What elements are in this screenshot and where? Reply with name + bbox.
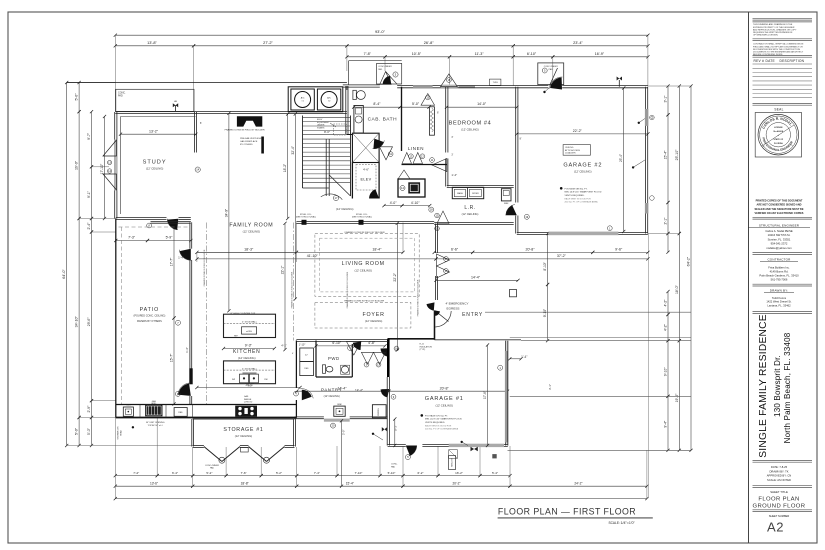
svg-text:CONTRACTOR: CONTRACTOR — [767, 257, 791, 261]
svg-text:ENTRY: ENTRY — [462, 312, 483, 318]
svg-text:SCALE:: SCALE: — [609, 521, 620, 525]
elevator shaft — [351, 163, 353, 199]
svg-text:DESCRIPTION: DESCRIPTION — [780, 59, 805, 63]
outdoor kitchen band — [116, 404, 297, 406]
svg-text:5'-3": 5'-3" — [394, 425, 398, 431]
LR left bay window triangles — [437, 211, 449, 224]
pantry left wall — [295, 341, 297, 389]
left dim extensions — [67, 82, 116, 84]
cab bath entry porch outline — [349, 60, 402, 62]
family room wall stub — [261, 137, 264, 154]
svg-text:FRAMED DOWN IN FIELD BY BUILDE: FRAMED DOWN IN FIELD BY BUILDER — [225, 129, 265, 132]
svg-text:561-795-7006: 561-795-7006 — [771, 278, 788, 282]
svg-text:9'-10": 9'-10" — [543, 308, 547, 317]
emergency egress door — [427, 302, 435, 310]
svg-text:1422 West Drexel St.: 1422 West Drexel St. — [766, 300, 792, 304]
svg-text:14'-0": 14'-0" — [477, 102, 487, 106]
svg-text:CAB. BATH: CAB. BATH — [368, 117, 398, 123]
svg-text:PANTRY: PANTRY — [321, 388, 342, 393]
svg-text:93'-0": 93'-0" — [375, 29, 386, 34]
svg-text:18'-2": 18'-2" — [283, 163, 287, 172]
svg-text:6'-4": 6'-4" — [172, 471, 178, 475]
svg-text:ELEV: ELEV — [361, 178, 372, 182]
svg-text:32'-4": 32'-4" — [291, 145, 295, 154]
svg-text:9'-10": 9'-10" — [664, 367, 668, 377]
svg-text:4'-1": 4'-1" — [281, 344, 286, 348]
svg-text:25'-4": 25'-4" — [619, 154, 623, 162]
right dim chain 1 — [667, 86, 669, 115]
washer dryer boxes — [452, 187, 483, 198]
svg-text:10'-5": 10'-5" — [412, 52, 422, 56]
svg-text:Todd Koons: Todd Koons — [772, 296, 787, 300]
svg-text:8'-10": 8'-10" — [543, 261, 547, 270]
svg-text:PAVERS BY OTHERS: PAVERS BY OTHERS — [137, 320, 162, 323]
svg-text:4'-2": 4'-2" — [664, 299, 668, 307]
pwd top wall — [296, 339, 387, 341]
svg-text:7'-2": 7'-2" — [133, 471, 139, 475]
svg-text:1/4"=1'0": 1/4"=1'0" — [621, 521, 636, 525]
svg-text:REFRIG: REFRIG — [378, 408, 380, 416]
cab bath vanity — [354, 106, 363, 134]
stair winder diagonal — [329, 175, 350, 196]
LR sink cabinet — [501, 189, 511, 201]
cab bath entry door — [380, 72, 391, 85]
svg-text:ELEV: ELEV — [317, 119, 323, 121]
svg-text:FLORIDA: FLORIDA — [774, 142, 783, 145]
study interior wall ticks — [121, 116, 196, 118]
svg-text:4'-10": 4'-10" — [411, 201, 420, 205]
bedroom4 left wall — [445, 87, 447, 153]
svg-text:INSULATION: INSULATION — [420, 345, 433, 348]
svg-text:REF.: REF. — [304, 368, 309, 370]
svg-text:OF WINDSWELL DESIGN.: OF WINDSWELL DESIGN. — [753, 35, 779, 37]
title block frame — [748, 12, 750, 543]
svg-text:SHEET NUMBER: SHEET NUMBER — [769, 514, 790, 518]
svg-text:SCALE: AS NOTED: SCALE: AS NOTED — [767, 478, 791, 482]
svg-text:VENTS REQUIRED.: VENTS REQUIRED. — [565, 195, 585, 197]
hose bib HB top right — [618, 80, 620, 87]
right dim chain 2 — [678, 86, 680, 234]
pantry dim 14'-4" — [297, 390, 388, 392]
left closet shelving — [300, 348, 314, 362]
svg-text:Frisa Builders Inc.: Frisa Builders Inc. — [768, 266, 790, 270]
svg-text:5'-0": 5'-0" — [75, 427, 79, 435]
conc paver pad box — [377, 63, 402, 84]
svg-text:BY OTHERS: BY OTHERS — [240, 144, 253, 146]
svg-text:9'-4": 9'-4" — [664, 420, 668, 428]
patio door wedge — [180, 249, 191, 261]
top wall right of entry — [562, 85, 648, 87]
svg-text:PRINTED COPIES OF THIS DOC: PRINTED COPIES OF THIS DOCUMENT — [756, 200, 803, 203]
garage1 interior dim 17'-8" — [487, 345, 489, 446]
svg-text:HEAD: HEAD — [120, 430, 123, 436]
svg-text:STEEL COL.: STEEL COL. — [356, 214, 368, 216]
svg-text:4'-6": 4'-6" — [363, 167, 369, 171]
cab bath top wall — [343, 84, 380, 86]
svg-text:26'-8": 26'-8" — [424, 41, 434, 45]
tankless WH garage1 — [449, 456, 456, 470]
svg-text:14'-4": 14'-4" — [355, 389, 363, 393]
svg-text:Lantana, FL. 33462: Lantana, FL. 33462 — [767, 304, 791, 308]
svg-text:5'-0": 5'-0" — [87, 427, 91, 435]
svg-text:(SEE STRUCTURAL): (SEE STRUCTURAL) — [296, 216, 316, 219]
garage1 side door — [406, 446, 417, 456]
svg-text:10216 NW 57th St.: 10216 NW 57th St. — [768, 233, 791, 237]
garage2 attic access box — [563, 145, 590, 156]
study door wedge — [167, 219, 178, 230]
hall closet M doors — [361, 352, 373, 364]
kitchen dims — [224, 348, 275, 350]
svg-text:FLOOR PLAN — FIRST FLOOR: FLOOR PLAN — FIRST FLOOR — [498, 506, 636, 516]
living dim row y252 left seg — [197, 251, 297, 253]
hall dim 14'-4" y280 — [436, 279, 518, 281]
fireplace — [237, 116, 262, 126]
svg-text:5'-9": 5'-9" — [166, 236, 174, 240]
storage bay windows zigzag — [204, 447, 222, 462]
garage1 outlets and symbols — [461, 441, 463, 443]
svg-text:14'-4": 14'-4" — [471, 276, 481, 280]
svg-text:RANGE: RANGE — [244, 398, 252, 401]
kitchen island 2 — [224, 361, 276, 384]
svg-text:STORAGE #1: STORAGE #1 — [223, 427, 263, 433]
svg-text:1'-10": 1'-10" — [299, 342, 306, 346]
top wall to garage2 entry — [457, 85, 548, 87]
svg-text:DRAWN BY:: DRAWN BY: — [770, 289, 789, 293]
svg-text:BEDROOM #4: BEDROOM #4 — [449, 121, 492, 127]
svg-text:9'-3": 9'-3" — [245, 344, 253, 348]
kitchen-patio door — [178, 384, 191, 396]
garage1 right wall — [505, 341, 507, 446]
garage1 bottom wall — [388, 443, 406, 445]
svg-text:APPROVED BY: CN: APPROVED BY: CN — [767, 474, 792, 478]
svg-text:nodalce@yahoo.com: nodalce@yahoo.com — [766, 246, 792, 250]
svg-text:(TYP.): (TYP.) — [420, 349, 426, 351]
svg-text:FOOTAGE 588 SQ. FT.: FOOTAGE 588 SQ. FT. — [565, 188, 588, 191]
svg-text:SEAL: SEAL — [774, 108, 783, 112]
pwd walls — [315, 341, 317, 378]
svg-text:4" STUB WALL: 4" STUB WALL — [242, 367, 258, 370]
svg-text:A/C: A/C — [301, 97, 305, 100]
svg-text:22'-1": 22'-1" — [281, 265, 285, 274]
left exterior wall lower — [115, 219, 117, 418]
svg-text:6'-6": 6'-6" — [451, 248, 459, 252]
study bottom wall with door opening — [116, 216, 167, 218]
svg-text:HB: HB — [174, 101, 178, 103]
svg-text:FRAMED DOWN IN FIELD BY BUILDE: FRAMED DOWN IN FIELD BY BUILDER — [346, 271, 349, 308]
svg-text:CONC./PAVER: CONC./PAVER — [378, 65, 392, 68]
svg-text:AND REPRODUCTION, CHANGES OR C: AND REPRODUCTION, CHANGES OR COPY — [753, 28, 797, 31]
pool bath — [398, 179, 425, 197]
svg-text:8'-0": 8'-0" — [324, 130, 330, 134]
svg-text:18'-4": 18'-4" — [372, 248, 382, 252]
svg-text:FRAMED DOWN IN FIELD BY BUILDE: FRAMED DOWN IN FIELD BY BUILDER — [417, 279, 420, 316]
svg-text:WASH: WASH — [457, 192, 463, 195]
svg-text:North Palm Beach, FL. 33408: North Palm Beach, FL. 33408 — [783, 332, 792, 443]
svg-text:23'-4": 23'-4" — [573, 41, 583, 45]
hall dims y205 — [384, 205, 402, 207]
outdoor ref — [174, 408, 187, 417]
svg-text:MIN. (3) 8"x16" SMARTVENT FLOO: MIN. (3) 8"x16" SMARTVENT FLOOD — [565, 191, 602, 194]
svg-text:5'-4": 5'-4" — [492, 471, 498, 475]
right dim chain 3 64'-2" — [690, 86, 692, 450]
svg-text:20'-8": 20'-8" — [525, 248, 535, 252]
svg-text:200 SQ. FT. OF COVERAGE AREA: 200 SQ. FT. OF COVERAGE AREA — [565, 201, 599, 204]
svg-text:LICENSE: LICENSE — [774, 127, 783, 129]
bottom dim extensions — [114, 418, 116, 499]
svg-text:5'-0": 5'-0" — [75, 93, 79, 101]
foyer right wall with doors — [435, 224, 437, 254]
svg-text:LIVING ROOM: LIVING ROOM — [342, 261, 385, 267]
svg-text:KITCHEN: KITCHEN — [233, 349, 261, 355]
svg-text:GROUND FLOOR: GROUND FLOOR — [753, 504, 806, 510]
svg-text:T.WH: T.WH — [493, 82, 498, 84]
svg-text:9'-1": 9'-1" — [87, 190, 91, 198]
svg-text:22'-2": 22'-2" — [393, 272, 397, 281]
garage2 entry door — [550, 78, 562, 90]
elevator door wedge — [369, 189, 379, 198]
svg-text:(SEE STRUCTURAL): (SEE STRUCTURAL) — [352, 216, 372, 219]
top dim tier2 — [115, 45, 193, 47]
range — [235, 406, 257, 417]
wall over bedroom bump — [397, 85, 440, 87]
svg-text:FOOTAGE 375 SQ. FT.: FOOTAGE 375 SQ. FT. — [425, 414, 448, 417]
LR to garage door — [506, 205, 517, 215]
svg-text:19'-2": 19'-2" — [675, 393, 679, 403]
svg-text:FRAMED DOWN IN FIELD BY BUILDE: FRAMED DOWN IN FIELD BY BUILDER — [344, 300, 384, 303]
bedroom4 bottom wall / LR top wall — [447, 184, 514, 186]
title block top rules — [753, 17, 813, 19]
svg-text:SINK: SINK — [504, 203, 509, 205]
svg-text:FIELD AND SHALL NOTIFY ANY DIS: FIELD AND SHALL NOTIFY ANY DISCREPANCY O… — [753, 45, 803, 48]
svg-text:STATE OF: STATE OF — [774, 138, 784, 141]
svg-text:2'-1": 2'-1" — [664, 217, 668, 225]
conc pad strip top line — [67, 82, 347, 84]
svg-text:7'-4": 7'-4" — [314, 471, 320, 475]
svg-text:PRE-FAB VENTLESS: PRE-FAB VENTLESS — [240, 137, 262, 140]
svg-text:34'-9": 34'-9" — [224, 208, 228, 217]
svg-text:PWD: PWD — [328, 356, 340, 361]
svg-text:FRAMED DOWN IN FIELD BY BUILDE: FRAMED DOWN IN FIELD BY BUILDER — [345, 231, 385, 234]
dim vertical x341 below pantry — [341, 421, 343, 486]
svg-text:(12' CEILING): (12' CEILING) — [336, 207, 354, 211]
pantry bottom wall w/ opening — [295, 416, 324, 418]
svg-text:4" STUB WALL: 4" STUB WALL — [242, 321, 258, 324]
svg-text:(12' CEILING): (12' CEILING) — [365, 319, 383, 323]
svg-text:2'-4": 2'-4" — [87, 222, 91, 230]
svg-text:130 Bowsprit Dr.: 130 Bowsprit Dr. — [773, 355, 782, 417]
svg-text:(12' CEILING): (12' CEILING) — [235, 434, 253, 438]
svg-text:ARE NOT CONSIDERED SIGNED: ARE NOT CONSIDERED SIGNED AND — [757, 204, 802, 207]
svg-text:FRAMED DOWN IN FIELD BY BUILDE: FRAMED DOWN IN FIELD BY BUILDER — [203, 249, 206, 286]
garage2 left wall — [515, 87, 517, 203]
svg-text:SEALED AND THE SIGNATURE M: SEALED AND THE SIGNATURE MUST BE — [754, 208, 803, 211]
svg-text:GAS: GAS — [244, 395, 249, 398]
svg-text:17'-8": 17'-8" — [483, 391, 487, 399]
svg-text:Sunrise, FL. 33351: Sunrise, FL. 33351 — [768, 237, 791, 241]
svg-text:Carlos A. Nodal PE/SE: Carlos A. Nodal PE/SE — [765, 229, 793, 233]
hall door triangles near bath — [380, 147, 393, 160]
svg-text:41'-10": 41'-10" — [307, 254, 319, 258]
svg-text:11'-3": 11'-3" — [475, 52, 485, 56]
pantry door wedge — [302, 390, 312, 401]
svg-text:EACH VENT IS GOOD FOR: EACH VENT IS GOOD FOR — [425, 425, 452, 428]
garage2 interior dim 25'-4" — [623, 88, 625, 232]
svg-text:4'-0": 4'-0" — [390, 201, 397, 205]
study left exterior wall — [114, 112, 116, 219]
svg-text:3'-1": 3'-1" — [548, 384, 552, 390]
svg-text:(12' CEILING): (12' CEILING) — [243, 230, 261, 234]
svg-text:19'-0": 19'-0" — [75, 160, 79, 170]
left dim chain outer 64'-0" — [66, 83, 68, 446]
svg-text:Palm Beach Gardens, FL. 33410: Palm Beach Gardens, FL. 33410 — [759, 274, 799, 278]
svg-text:17'-10": 17'-10" — [100, 163, 104, 174]
svg-text:4'-2": 4'-2" — [664, 323, 668, 331]
svg-text:15'-4": 15'-4" — [664, 150, 668, 160]
svg-text:7'-8": 7'-8" — [364, 52, 372, 56]
svg-text:PAD: PAD — [210, 467, 215, 470]
bedroom door triangle — [432, 159, 447, 172]
garage2 outlets — [638, 122, 640, 124]
porch step rect — [510, 290, 517, 297]
svg-text:37'-2": 37'-2" — [557, 254, 567, 258]
outdoor sink — [123, 407, 133, 416]
garage2 footage note — [560, 187, 563, 190]
svg-text:LINEN: LINEN — [408, 146, 424, 151]
svg-text:3'-1": 3'-1" — [664, 95, 668, 103]
svg-text:13'-8": 13'-8" — [147, 41, 157, 45]
svg-text:64'-0": 64'-0" — [62, 269, 66, 279]
svg-text:13'-6": 13'-6" — [150, 481, 158, 485]
conc pad box — [116, 89, 194, 111]
svg-text:FLOOR PLAN: FLOOR PLAN — [758, 497, 799, 503]
svg-text:(12' CEILING): (12' CEILING) — [238, 356, 256, 360]
svg-text:200 SQ. FT. OF COVERAGE AREA: 200 SQ. FT. OF COVERAGE AREA — [425, 428, 459, 431]
svg-text:5'-2": 5'-2" — [276, 471, 282, 475]
garage1 footage note — [421, 414, 424, 417]
svg-text:1'-4": 1'-4" — [178, 256, 184, 260]
svg-text:4149 Burns Rd.: 4149 Burns Rd. — [770, 270, 789, 274]
svg-text:STUDY: STUDY — [143, 159, 167, 165]
svg-text:THIS DRAWING AND DRAWINGS IS T: THIS DRAWING AND DRAWINGS IS THE — [753, 23, 793, 26]
svg-text:5'-10": 5'-10" — [388, 471, 396, 475]
svg-text:STEEL COL.: STEEL COL. — [300, 214, 312, 216]
bottom dim tier1 — [115, 475, 157, 477]
cab bath door wedge — [373, 139, 384, 149]
svg-text:DRYER: DRYER — [472, 193, 479, 195]
svg-text:DW: DW — [264, 379, 267, 381]
svg-text:6'-10": 6'-10" — [527, 52, 537, 56]
svg-text:7'-6": 7'-6" — [241, 471, 247, 475]
svg-text:42": 42" — [305, 355, 308, 357]
svg-text:(12' CEILING): (12' CEILING) — [462, 212, 479, 216]
svg-text:(12' CEILING): (12' CEILING) — [146, 166, 164, 170]
hall doors on garage wall — [381, 348, 390, 356]
svg-text:3'-0": 3'-0" — [342, 429, 346, 435]
svg-text:18'-3": 18'-3" — [244, 248, 254, 252]
bedroom dim row y107 — [354, 106, 400, 108]
svg-text:PAD: PAD — [549, 68, 554, 71]
staircase — [302, 116, 304, 189]
hall door arc bottom of stairs — [321, 194, 343, 200]
AC closet enclosure — [288, 87, 343, 112]
svg-text:13'-2": 13'-2" — [149, 129, 159, 133]
top dim extension lines — [114, 35, 116, 112]
svg-text:SHOWER O/S: SHOWER O/S — [118, 426, 120, 440]
study right wall stub — [193, 112, 195, 153]
mid dim row y252 — [197, 251, 297, 253]
revision table rows — [753, 67, 813, 69]
svg-text:PAD: PAD — [378, 68, 383, 71]
svg-text:SINGLE FAMILY RESIDENCE: SINGLE FAMILY RESIDENCE — [758, 314, 769, 458]
bedroom4 closet — [429, 107, 434, 135]
svg-text:(12' CEILING): (12' CEILING) — [324, 394, 340, 398]
garage2 pad circle — [542, 68, 547, 73]
svg-text:A/C: A/C — [327, 97, 331, 100]
svg-text:CONC./PAVER: CONC./PAVER — [205, 464, 220, 467]
svg-text:GARAGE #2: GARAGE #2 — [563, 163, 602, 169]
svg-text:EGRESS: EGRESS — [447, 306, 460, 310]
svg-text:FRAMED DOWN IN FIELD BY BUILDE: FRAMED DOWN IN FIELD BY BUILDER — [290, 271, 293, 308]
svg-text:GAS FIREPLACE: GAS FIREPLACE — [240, 140, 258, 143]
svg-text:SINK: SINK — [337, 404, 342, 406]
svg-text:UNDER: UNDER — [317, 125, 325, 127]
svg-text:GRILL: GRILL — [151, 403, 156, 405]
garage1 top wall R-11 — [388, 338, 435, 340]
study window bowties — [114, 140, 117, 191]
patio top dim row 7'-3" 5'-9" — [116, 240, 148, 242]
svg-text:VERIFIED ON ANY ELECTRONIC: VERIFIED ON ANY ELECTRONIC COPIES — [755, 212, 804, 215]
mid dim row y259 — [197, 258, 436, 260]
top dimension line 93'-0" — [115, 34, 648, 36]
svg-text:MIN. (1) 8"x16" SMARTVENT FLOO: MIN. (1) 8"x16" SMARTVENT FLOOD — [425, 418, 462, 421]
svg-text:(12' CEILING): (12' CEILING) — [461, 128, 479, 132]
svg-text:w/HOOD: w/HOOD — [244, 402, 253, 404]
svg-text:DATE: DATE — [766, 59, 776, 63]
svg-text:16'-9": 16'-9" — [595, 52, 605, 56]
entry wall below egress — [434, 311, 436, 340]
cab bath right wall — [401, 87, 403, 151]
left dim chain 2 — [78, 83, 80, 112]
pwd entry door — [347, 342, 362, 356]
bottom dim tier2 — [115, 485, 192, 487]
garage2 entry conc paver pad — [538, 63, 564, 85]
svg-text:(12' CEILING): (12' CEILING) — [435, 403, 453, 407]
svg-text:GARAGE #1: GARAGE #1 — [425, 396, 464, 402]
porch step lines — [485, 311, 691, 313]
svg-text:CONTRACTOR SHALL VERIFY ALL DI: CONTRACTOR SHALL VERIFY ALL DIMENSIONS I… — [753, 43, 804, 46]
patio right wall — [189, 222, 191, 248]
hose bib HB top-left — [175, 105, 177, 112]
svg-text:FOYER: FOYER — [362, 312, 384, 318]
svg-text:EACH VENT IS GOOD FOR: EACH VENT IS GOOD FOR — [565, 198, 592, 201]
svg-text:4' EMERGENCY: 4' EMERGENCY — [445, 302, 468, 306]
svg-text:1'-4": 1'-4" — [451, 173, 457, 177]
svg-text:TANKLESS: TANKLESS — [450, 457, 453, 467]
top dim tier3 — [347, 56, 385, 58]
svg-text:L.R.: L.R. — [464, 205, 475, 211]
svg-text:CONC./PAVER: CONC./PAVER — [544, 65, 559, 68]
family-patio wall — [151, 220, 191, 222]
bottom dim tier3 93' — [115, 498, 647, 500]
svg-text:(12' CEILING): (12' CEILING) — [574, 170, 592, 174]
svg-text:SINK: SINK — [126, 405, 131, 407]
svg-text:VENTS REQUIRED.: VENTS REQUIRED. — [425, 422, 445, 424]
shower X box cab bath — [352, 133, 379, 162]
svg-text:REF.: REF. — [234, 336, 239, 338]
svg-text:A2: A2 — [767, 520, 784, 535]
main top wall of left block — [115, 110, 347, 112]
svg-text:2'-9": 2'-9" — [87, 405, 91, 413]
